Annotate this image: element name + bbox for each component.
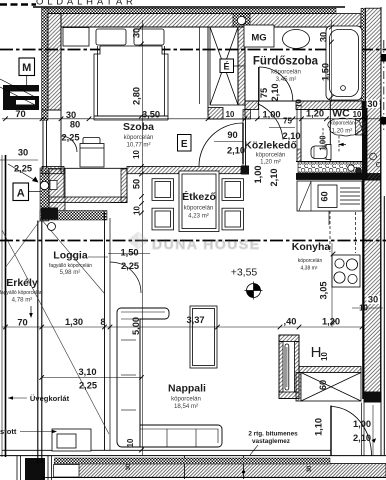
- svg-text:75: 75: [259, 88, 269, 98]
- kitchen upper cabinet dashed line 2: [355, 212, 357, 253]
- svg-text:30: 30: [367, 99, 377, 109]
- column block with pipe in top wall: [233, 14, 250, 27]
- szoba left inner edge: [60, 27, 62, 174]
- svg-text:2,25: 2,25: [14, 164, 32, 174]
- svg-text:É: É: [223, 62, 229, 72]
- svg-text:1,20 m²: 1,20 m²: [260, 159, 281, 166]
- leader arrow to wall anchor circle: [8, 164, 37, 182]
- sofa L-shape: [117, 308, 222, 447]
- svg-text:70: 70: [15, 109, 25, 119]
- svg-text:10: 10: [295, 99, 304, 108]
- svg-text:2,10: 2,10: [353, 433, 371, 443]
- fridge vent lines: [340, 188, 360, 204]
- svg-text:1,00: 1,00: [353, 419, 371, 429]
- svg-text:köporcelán: köporcelán: [298, 258, 323, 264]
- svg-text:2,10: 2,10: [227, 146, 245, 156]
- desk in szoba: [83, 138, 100, 145]
- bottom threshold line: [0, 455, 386, 457]
- svg-text:Loggia: Loggia: [53, 250, 88, 262]
- top exterior wall black face line: [33, 6, 345, 8]
- svg-text:2,80: 2,80: [132, 87, 142, 105]
- svg-text:1,00: 1,00: [253, 165, 263, 183]
- svg-text:60: 60: [318, 380, 328, 390]
- dining chair top-left: [152, 179, 174, 201]
- left wall insulation lower: [40, 168, 49, 221]
- niche outline: [63, 168, 65, 197]
- counter sink sliver: [285, 344, 289, 390]
- svg-text:2,25: 2,25: [121, 261, 139, 271]
- WC flush dashed line with arrow: [323, 128, 346, 153]
- pillow 1: [97, 46, 99, 116]
- svg-text:10: 10: [132, 150, 141, 159]
- kozlekedo south edge: [296, 161, 363, 163]
- unit 60 box: [318, 185, 337, 208]
- bottom slab hatch band: [42, 464, 386, 478]
- toilet in WC: [326, 145, 331, 160]
- loggia dim line: [42, 377, 142, 379]
- top wall insulation (checker band): [42, 8, 336, 13]
- loggia top insulation checker band: [40, 211, 107, 221]
- shaft-bathroom wall lines: [237, 27, 239, 105]
- svg-text:4,23 m²: 4,23 m²: [188, 213, 209, 220]
- bottom insulation checker band: [54, 458, 330, 464]
- svg-text:Üvegkorlát: Üvegkorlát: [30, 394, 70, 403]
- loggia diagonal lines: [2, 230, 109, 434]
- main lower dim chain line: [2, 326, 363, 328]
- left exterior wall masonry upper: [48, 14, 61, 110]
- right wall inner black face at kitchen: [362, 180, 364, 399]
- pipe circle white on slab: [348, 165, 354, 171]
- svg-text:10: 10: [226, 110, 235, 119]
- svg-text:Fürdőszoba: Fürdőszoba: [253, 56, 319, 68]
- kitchen X-box: [301, 373, 361, 402]
- top horizontal dim chain line: [2, 118, 381, 120]
- wc partition line: [329, 101, 331, 162]
- svg-text:3,45 m²: 3,45 m²: [276, 76, 297, 83]
- wc/kitchen separation insulation circles band: [298, 162, 363, 173]
- svg-text:,40: ,40: [284, 317, 297, 327]
- kitchen upper cabinet dashed line: [329, 211, 331, 252]
- sideboard in nappali: [190, 306, 217, 368]
- bottom black block left: [14, 456, 25, 480]
- svg-text:10: 10: [320, 352, 329, 361]
- wall end black cap at loggia corner: [41, 208, 58, 220]
- right wall outer edge line: [380, 7, 382, 456]
- outer structure line right margin: [383, 196, 385, 455]
- anchor circle on wall: [40, 181, 48, 189]
- wall band under shaft hatch: [208, 108, 223, 120]
- svg-text:1,50: 1,50: [120, 248, 138, 258]
- svg-text:köporcelán: köporcelán: [171, 396, 201, 403]
- bathroom south wall hatch right piece: [296, 101, 362, 110]
- pillow 2: [134, 29, 164, 45]
- hinge circle loggia corner: [48, 223, 56, 231]
- right wall masonry mid: [367, 101, 381, 180]
- dining chair top-right: [222, 179, 244, 201]
- svg-text:Konyha: Konyha: [292, 241, 331, 253]
- section marker black square right edge 1: [381, 54, 386, 62]
- left wall masonry below window: [49, 169, 65, 214]
- svg-text:1,20: 1,20: [306, 109, 324, 119]
- svg-text:MG: MG: [251, 33, 266, 44]
- kitchen north line: [296, 179, 365, 181]
- svg-text:+3,55: +3,55: [231, 267, 258, 279]
- svg-text:70: 70: [17, 318, 27, 328]
- loggia small table: [52, 429, 91, 451]
- svg-text:A: A: [17, 188, 25, 200]
- bed: [94, 46, 168, 116]
- right exterior wall masonry upper: [366, 8, 382, 101]
- svg-text:2,25: 2,25: [79, 381, 97, 391]
- right exterior wall insulation strip: [361, 8, 366, 101]
- nappali west window wall double lines: [104, 213, 106, 450]
- section line dash-dot middle: [0, 240, 386, 242]
- bathroom sink oval: [283, 30, 310, 49]
- right wall masonry lower (kitchen): [364, 180, 381, 392]
- top wall inner edge: [61, 26, 361, 28]
- svg-text:köporcelán: köporcelán: [184, 205, 214, 212]
- svg-text:1,20 m²: 1,20 m²: [332, 128, 353, 135]
- loggia/erkely divider lines: [37, 221, 39, 464]
- bathroom floor lines: [245, 100, 362, 102]
- dining table: [179, 171, 219, 232]
- dim line under 75: [269, 127, 295, 129]
- bottom slab lower edge: [42, 477, 386, 479]
- svg-text:Szoba: Szoba: [123, 121, 154, 133]
- svg-text:1,00: 1,00: [262, 110, 280, 120]
- marker box A: [13, 183, 29, 201]
- marker box M: [19, 58, 35, 76]
- bathroom south wall hatch left piece: [245, 101, 259, 110]
- niche wall hatch band below szoba: [49, 197, 127, 203]
- bathtub: [326, 26, 362, 100]
- left wall window (balcony door) glazing lines: [42, 120, 44, 168]
- szoba door leaf and arc: [242, 123, 244, 164]
- white niche box in bottom slab: [54, 465, 80, 478]
- marker box E: [178, 135, 192, 152]
- right wall black column at WC: [362, 101, 367, 180]
- svg-text:75: 75: [283, 117, 292, 126]
- svg-text:30: 30: [307, 465, 313, 472]
- kozlekedo west wall double line: [242, 117, 244, 167]
- svg-text:30: 30: [132, 28, 142, 38]
- counter hatch strips: [279, 335, 299, 342]
- vertical dim line bathroom right: [331, 20, 333, 101]
- svg-text:8: 8: [100, 317, 105, 327]
- bottom line under living room: [2, 449, 331, 451]
- kozlekedo east wall hatch bottom: [297, 149, 301, 162]
- svg-text:30: 30: [319, 32, 329, 42]
- erkely outer edge lines: [5, 155, 7, 457]
- svg-text:Nappali: Nappali: [168, 383, 206, 395]
- svg-text:30: 30: [66, 110, 76, 120]
- svg-text:köporcelán: köporcelán: [256, 152, 286, 159]
- svg-text:3,05: 3,05: [319, 281, 329, 299]
- pipe circle dark on slab: [356, 168, 362, 174]
- dining chair bottom-left: [152, 208, 174, 230]
- right wall black cap above door: [364, 392, 382, 403]
- svg-text:30: 30: [368, 295, 378, 305]
- shaft wall hatch right of shaft: [238, 27, 245, 105]
- svg-text:Erkély: Erkély: [6, 277, 38, 289]
- svg-text:50: 50: [132, 179, 142, 189]
- svg-text:1,00: 1,00: [319, 135, 328, 151]
- stove: [332, 255, 360, 287]
- svg-text:60: 60: [320, 191, 330, 201]
- watermark duna house: [127, 232, 261, 253]
- secondary dim line under 90 label: [214, 141, 243, 143]
- WC pipe chase hatched: [356, 119, 367, 136]
- szoba south half-wall hatch band: [42, 167, 64, 174]
- shaft (elevator) box with X: [210, 27, 238, 105]
- svg-text:80: 80: [70, 120, 80, 130]
- svg-text:1,30: 1,30: [65, 317, 83, 327]
- level marker symbol: [245, 282, 263, 300]
- top wall masonry hatch band: [61, 14, 361, 27]
- svg-text:M: M: [22, 62, 31, 74]
- svg-text:1,10: 1,10: [314, 418, 324, 436]
- svg-text:Étkező: Étkező: [182, 190, 216, 203]
- svg-text:köporcelán: köporcelán: [271, 69, 301, 76]
- svg-text:E: E: [181, 139, 188, 150]
- right wall width dim line: [352, 307, 383, 309]
- dimension texts rotated: [126, 28, 331, 473]
- svg-text:stott: stott: [0, 427, 17, 436]
- vertical dim line left interior: [142, 20, 144, 455]
- section line dash-dot upper: [0, 49, 386, 51]
- entry door arc (hinge at WC corner): [258, 101, 260, 119]
- svg-text:30: 30: [126, 463, 132, 470]
- svg-text:4,78 m²: 4,78 m²: [12, 297, 33, 304]
- wc west wall double line: [296, 109, 298, 162]
- section marker black square right edge 2: [381, 117, 386, 125]
- vertical dim line kitchen: [331, 243, 333, 327]
- marker box F in shaft: [220, 59, 234, 73]
- svg-text:10: 10: [126, 438, 135, 447]
- balcony door arc in szoba: [61, 136, 77, 152]
- szoba south wall black end cap: [241, 166, 249, 175]
- svg-text:2,10: 2,10: [270, 83, 280, 101]
- svg-text:10: 10: [133, 206, 142, 215]
- property boundary dashed line top-left: [0, 3, 36, 6]
- kitchen door leaf and arc bottom right: [330, 406, 332, 457]
- svg-text:fagyálló köporcelán: fagyálló köporcelán: [0, 290, 43, 296]
- svg-text:5,98 m²: 5,98 m²: [60, 269, 81, 276]
- svg-text:18,54 m²: 18,54 m²: [174, 403, 198, 410]
- svg-text:2,10: 2,10: [282, 131, 300, 141]
- svg-text:DUNA HOUSE: DUNA HOUSE: [152, 236, 261, 252]
- wardrobe beside bed: [63, 28, 89, 47]
- left dim line at y160: [0, 159, 38, 161]
- svg-text:30: 30: [18, 148, 28, 158]
- left exterior wall insulation upper: [42, 8, 49, 120]
- szoba right wall lines: [199, 27, 201, 104]
- svg-text:3,50: 3,50: [142, 110, 160, 120]
- svg-text:1,50: 1,50: [321, 63, 331, 81]
- neighbour wall section black bars top-left: [0, 79, 39, 110]
- svg-text:4,38 m²: 4,38 m²: [301, 266, 318, 272]
- kitchen tall unit row: [297, 181, 362, 211]
- svg-text:köporcelán: köporcelán: [330, 121, 355, 127]
- svg-text:10,77 m²: 10,77 m²: [126, 142, 150, 149]
- svg-text:10: 10: [359, 304, 368, 313]
- kitchen counter with hatched border: [279, 335, 299, 399]
- svg-text:köporcelán: köporcelán: [124, 134, 154, 141]
- loggia door arc into nappali: [110, 262, 141, 293]
- dining chair bottom-right: [222, 208, 244, 230]
- wc/kitchen separation black slab: [296, 173, 381, 180]
- svg-text:2,10: 2,10: [269, 168, 279, 186]
- bathroom door leaf and arc: [258, 67, 260, 101]
- svg-text:vastaglemez: vastaglemez: [252, 438, 290, 445]
- washing machine MG: [244, 25, 274, 47]
- svg-text:3,37: 3,37: [186, 315, 204, 325]
- svg-text:90: 90: [227, 130, 237, 140]
- revision cloud around WC area: [328, 118, 362, 136]
- svg-text:3,10: 3,10: [78, 367, 96, 377]
- svg-text:2 rtg. bitumenes: 2 rtg. bitumenes: [248, 431, 298, 438]
- svg-text:Közlekedő: Közlekedő: [244, 140, 297, 152]
- hatch band to X-box: [299, 367, 361, 373]
- svg-text:5,00: 5,00: [131, 317, 141, 335]
- svg-text:10: 10: [353, 110, 362, 119]
- svg-text:1,20: 1,20: [322, 317, 340, 327]
- svg-text:2,25: 2,25: [61, 133, 79, 143]
